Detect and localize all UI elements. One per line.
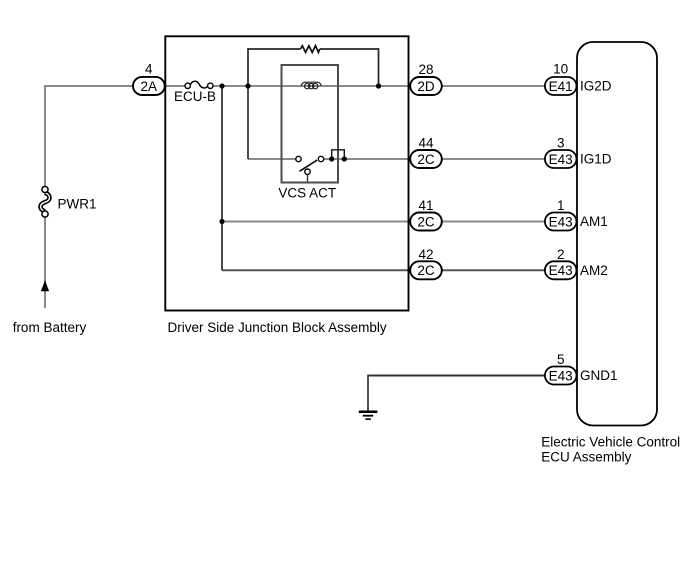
junction dot bbox=[219, 219, 224, 224]
svg-text:E43: E43 bbox=[549, 214, 573, 229]
svg-text:3: 3 bbox=[557, 136, 565, 151]
svg-text:41: 41 bbox=[418, 198, 433, 213]
svg-text:E43: E43 bbox=[549, 263, 573, 278]
relay terminal square bbox=[332, 150, 345, 159]
connector 2C row 4 bbox=[410, 261, 442, 279]
junction dot bbox=[245, 83, 250, 88]
svg-text:E41: E41 bbox=[549, 79, 573, 94]
svg-text:2C: 2C bbox=[417, 152, 435, 167]
connector 2D bbox=[410, 77, 442, 95]
connector 2C row 2 bbox=[410, 150, 442, 168]
Electric Vehicle Control ECU Assembly box bbox=[577, 42, 657, 426]
wire branch vertical to relay switch bbox=[247, 86, 249, 159]
svg-text:44: 44 bbox=[418, 136, 434, 151]
wire GND1 horizontal bbox=[368, 375, 560, 377]
svg-text:42: 42 bbox=[418, 247, 433, 262]
relay switch blade bbox=[300, 160, 318, 171]
svg-text:2: 2 bbox=[557, 247, 565, 262]
connector E43 GND bbox=[545, 367, 577, 385]
svg-text:2C: 2C bbox=[417, 214, 435, 229]
svg-text:ECU Assembly: ECU Assembly bbox=[541, 449, 631, 464]
connector E41 bbox=[545, 77, 577, 95]
svg-text:Driver Side Junction Block Ass: Driver Side Junction Block Assembly bbox=[168, 320, 387, 335]
relay switch pivot bbox=[305, 169, 310, 174]
svg-text:E43: E43 bbox=[549, 152, 573, 167]
wire relay switch row to 2C bbox=[324, 158, 427, 160]
wire AM1 row bbox=[222, 221, 426, 223]
battery arrow bbox=[41, 280, 49, 291]
svg-text:IG1D: IG1D bbox=[580, 152, 612, 167]
wire 2C to E43 row 4 bbox=[442, 269, 560, 271]
svg-text:VCS ACT: VCS ACT bbox=[278, 185, 336, 200]
wire branch vertical node A bbox=[221, 86, 223, 270]
wire relay switch row left bbox=[248, 158, 296, 160]
svg-text:from Battery: from Battery bbox=[13, 320, 87, 335]
junction dot bbox=[219, 83, 224, 88]
junction dot bbox=[342, 156, 347, 161]
connector E43 row 2 bbox=[545, 150, 577, 168]
resistor zigzag bbox=[301, 46, 320, 53]
relay coil bbox=[301, 82, 321, 89]
svg-text:1: 1 bbox=[557, 198, 565, 213]
relay VCS ACT inner box bbox=[282, 65, 339, 183]
fusible link PWR1 bbox=[40, 186, 49, 217]
relay switch pivot stem bbox=[307, 174, 309, 181]
connector E43 row 3 bbox=[545, 213, 577, 231]
connector 2C row 3 bbox=[410, 213, 442, 231]
svg-text:Electric Vehicle Control: Electric Vehicle Control bbox=[541, 434, 680, 449]
fuse ECU-B bbox=[185, 81, 213, 88]
svg-text:10: 10 bbox=[553, 62, 568, 77]
connector E43 row 4 bbox=[545, 261, 577, 279]
junction dot bbox=[376, 83, 381, 88]
svg-text:E43: E43 bbox=[549, 368, 573, 383]
wire AM2 row bbox=[222, 269, 426, 271]
resistor branch wire bbox=[248, 49, 379, 86]
Driver Side Junction Block Assembly box bbox=[165, 36, 408, 310]
svg-text:PWR1: PWR1 bbox=[58, 197, 97, 212]
wire 2D to E41 bbox=[442, 85, 560, 87]
svg-text:GND1: GND1 bbox=[580, 368, 618, 383]
wire 2C to E43 row 3 bbox=[442, 221, 560, 223]
svg-text:AM1: AM1 bbox=[580, 214, 608, 229]
connector 2A bbox=[133, 77, 165, 95]
svg-text:4: 4 bbox=[145, 62, 153, 77]
svg-text:ECU-B: ECU-B bbox=[174, 89, 216, 104]
wire battery to 2A horizontal bbox=[44, 85, 185, 87]
ground bbox=[359, 411, 378, 420]
wire from battery vertical bbox=[44, 86, 46, 308]
wire ECU-B fuse to 2D bbox=[213, 85, 426, 87]
relay switch right contact bbox=[318, 156, 323, 161]
svg-text:IG2D: IG2D bbox=[580, 79, 612, 94]
relay switch left contact bbox=[296, 156, 301, 161]
junction dot bbox=[329, 156, 334, 161]
wire GND1 vertical to ground bbox=[367, 375, 369, 412]
svg-text:AM2: AM2 bbox=[580, 263, 608, 278]
svg-text:2C: 2C bbox=[417, 263, 435, 278]
svg-text:2A: 2A bbox=[141, 79, 158, 94]
svg-text:28: 28 bbox=[418, 62, 433, 77]
svg-text:5: 5 bbox=[557, 352, 565, 367]
svg-text:2D: 2D bbox=[417, 79, 435, 94]
wire 2C to E43 row 2 bbox=[442, 158, 560, 160]
